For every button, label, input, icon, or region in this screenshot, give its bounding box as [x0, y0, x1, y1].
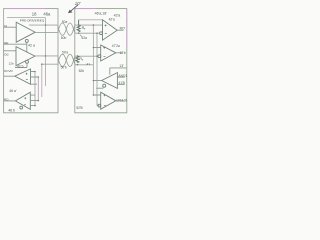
wire: bus vertical A3 — [37, 77, 39, 101]
twisted pair 1 wire a — [58, 23, 75, 35]
svg-text:10’: 10’ — [75, 1, 82, 6]
svg-text:RCVR: RCVR — [4, 69, 13, 73]
svg-text:PRE-DRIVER/EQ: PRE-DRIVER/EQ — [20, 18, 45, 22]
wire: U8 output — [116, 100, 124, 102]
svg-text:50'a: 50'a — [62, 50, 68, 54]
svg-text:46 b: 46 b — [8, 109, 15, 113]
svg-text:41'B: 41'B — [118, 81, 125, 85]
inverting bubble U2 — [26, 60, 29, 63]
svg-text:18: 18 — [32, 11, 37, 16]
svg-text:12'/18,2B: 12'/18,2B — [116, 99, 127, 103]
svg-text:12'b: 12'b — [120, 51, 126, 55]
junction dots — [34, 24, 98, 106]
node A enclosure box — [4, 9, 58, 113]
wire: DI input A — [4, 26, 17, 28]
polarity marks — [24, 24, 107, 105]
wire: U4 output — [4, 100, 16, 102]
op-amp U4 receiver A2 — [15, 92, 30, 109]
wire: bus vertical B1 — [92, 25, 94, 95]
svg-text:RE: RE — [4, 41, 8, 45]
resistor RT2 termination — [76, 56, 79, 63]
svg-text:46 a': 46 a' — [9, 89, 17, 93]
wire: bus B mid lower — [75, 64, 93, 66]
wire: pink tint box A top edge — [4, 9, 45, 42]
wire: U8 input stubs — [93, 95, 100, 106]
wire: bus A lower (U1 output) — [35, 31, 58, 33]
twisted pair 1 wire b — [58, 23, 75, 35]
inverting bubble U5 — [100, 32, 103, 35]
inverting bubble U4 — [20, 106, 23, 109]
op-amp U6 receiver B2 — [101, 45, 116, 61]
svg-text:50'b: 50'b — [61, 66, 67, 70]
wire: bus vertical A1 — [45, 18, 47, 86]
wire: RE input A — [4, 43, 27, 45]
wire: U7 output to bus — [93, 80, 101, 82]
wire: U1 enable drop — [26, 42, 28, 52]
wire: node B aux line — [110, 68, 127, 75]
op-amp U2 driver A2 — [16, 47, 35, 66]
svg-text:AND1: AND1 — [118, 74, 127, 78]
svg-text:RO': RO' — [120, 26, 126, 30]
svg-text:Di: Di — [4, 24, 7, 28]
svg-text:47'2a: 47'2a — [112, 44, 120, 48]
wire: bus B upper into node B — [75, 24, 103, 26]
svg-text:52'B: 52'B — [76, 106, 82, 110]
svg-text:50a: 50a — [62, 20, 68, 24]
wire: bus A upper — [29, 24, 58, 26]
inverting bubble U8 — [98, 104, 101, 107]
svg-text:46a: 46a — [43, 12, 51, 17]
svg-text:52b: 52b — [79, 69, 85, 73]
svg-text:42'a: 42'a — [109, 17, 115, 21]
op-amp U5 receiver B1 — [103, 20, 118, 40]
svg-text:50b: 50b — [61, 36, 67, 40]
wire: U7 input stubs — [117, 77, 124, 84]
wire: U2 enable drop — [15, 63, 27, 67]
op-amp U1 driver A1 — [16, 22, 35, 42]
twisted pair 2 wire b — [58, 54, 75, 66]
node B enclosure box — [75, 9, 127, 113]
wire: bus vertical B2 — [96, 33, 98, 105]
svg-text:Di2: Di2 — [4, 52, 9, 56]
inverting bubble U6 — [98, 55, 101, 58]
svg-text:12b: 12b — [9, 62, 14, 66]
callout arrow 10 — [69, 5, 79, 13]
wire: U3 output — [4, 75, 15, 77]
wire: bus A mid-upper (U2 output) — [35, 55, 58, 57]
wire: bus A mid-lower — [42, 63, 58, 65]
inverting bubble U1 — [25, 39, 28, 42]
wire: U2 input A — [4, 50, 16, 52]
wire: U3 input stubs — [31, 72, 39, 85]
wire: U4 input stubs — [30, 95, 38, 106]
wire: U6 input stub — [93, 47, 100, 49]
inverting bubble U7 — [103, 84, 106, 87]
wire: bus vertical A2 — [41, 64, 43, 97]
svg-text:13': 13' — [119, 64, 124, 68]
twisted pair 2 wire a — [58, 54, 75, 66]
wire: U6 output — [116, 52, 123, 54]
wire: bus B mid upper — [75, 55, 98, 57]
svg-text:4'L: 4'L — [86, 62, 90, 66]
wire: transceiver A top rail — [7, 17, 46, 19]
svg-text:42 b: 42 b — [17, 64, 24, 68]
op-amp U7 driver B1 — [102, 73, 118, 89]
leader 52a — [80, 35, 82, 37]
wire: U5 output — [117, 29, 123, 31]
wire: pink tint box B top edge — [76, 9, 127, 48]
op-amp U8 receiver B3 — [101, 92, 116, 109]
op-amp U3 receiver A1 — [15, 69, 31, 84]
wire: transceiver B top rail — [79, 19, 103, 21]
wire: bus vertical A4 — [34, 72, 36, 106]
svg-text:RO: RO — [4, 97, 9, 101]
svg-text:52a: 52a — [81, 36, 87, 40]
svg-text:46'a,18': 46'a,18' — [95, 12, 108, 16]
resistor RT1 termination — [77, 20, 80, 32]
wire: U7 enable — [96, 87, 103, 89]
svg-text:42 a: 42 a — [28, 43, 35, 47]
wire: bus B lower into node B — [75, 32, 100, 34]
